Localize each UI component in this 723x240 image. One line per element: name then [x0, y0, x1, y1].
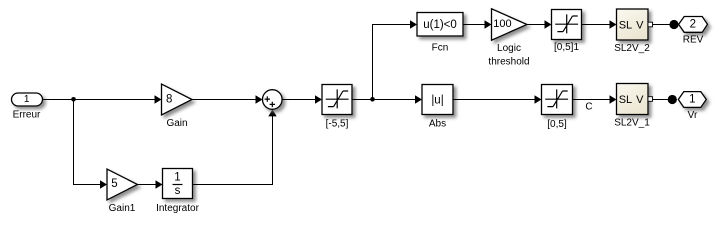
subsystem block SL2V_2: [617, 9, 649, 40]
svg-text:SL: SL: [619, 94, 632, 106]
wire Abs to Saturation2: [453, 99, 536, 101]
arrowhead into Logic threshold: [485, 20, 492, 28]
svg-text:2: 2: [690, 19, 696, 31]
fcn block u(1)<0: [417, 13, 463, 37]
svg-text:1: 1: [174, 171, 180, 183]
saturation block [0,5]1: [552, 10, 582, 40]
svg-text:SL: SL: [619, 19, 632, 31]
subsystem block SL2V_1: [617, 84, 649, 115]
wire Saturation to Abs: [352, 99, 416, 101]
wire Integrator up to Sum: [193, 116, 273, 185]
svg-text:u(1)<0: u(1)<0: [423, 19, 457, 31]
outport block 2 "REV": [679, 17, 708, 33]
wire Gain to Sum: [192, 99, 256, 101]
wire Fcn to Logic threshold: [463, 24, 485, 26]
svg-text:5: 5: [111, 178, 117, 190]
wire Logic threshold to Saturation1: [527, 24, 545, 26]
wire Gain1 to Integrator: [138, 184, 157, 186]
arrowhead into Saturation2: [535, 95, 542, 103]
svg-text:Gain: Gain: [166, 118, 187, 129]
svg-text:Logic: Logic: [497, 43, 521, 54]
svg-text:[0,5]: [0,5]: [547, 119, 567, 130]
arrowhead into Gain: [155, 95, 162, 103]
arrowhead into SL2V_2: [610, 20, 617, 28]
arrowhead into Saturation: [315, 95, 322, 103]
svg-text:SL2V_1: SL2V_1: [614, 118, 650, 129]
svg-text:s: s: [175, 185, 181, 197]
svg-text:Fcn: Fcn: [432, 43, 449, 54]
wire inport to Gain: [43, 99, 156, 101]
svg-text:Gain1: Gain1: [109, 203, 136, 214]
svg-text:Abs: Abs: [429, 118, 446, 129]
junction node at branch: [71, 97, 76, 102]
wire branch up to Fcn: [373, 25, 411, 100]
svg-text:|u|: |u|: [431, 95, 443, 107]
svg-text:REV: REV: [683, 34, 704, 45]
svg-text:1: 1: [24, 94, 30, 105]
wire Saturation1 to SL2V_2: [582, 24, 611, 26]
svg-text:1: 1: [689, 94, 695, 106]
svg-text:V: V: [636, 94, 644, 106]
arrowhead into Sum: [256, 95, 263, 103]
inport block 1 "Erreur": [12, 93, 43, 106]
gain block "100" (Logic threshold): [492, 9, 528, 40]
wire branch down to Gain1: [74, 100, 101, 185]
arrowhead into Fcn: [410, 20, 417, 28]
svg-text:SL2V_2: SL2V_2: [614, 43, 650, 54]
svg-text:[0,5]1: [0,5]1: [554, 42, 579, 53]
arrowhead into Integrator: [156, 180, 163, 188]
junction node on wire: [370, 97, 375, 102]
saturation block [-5,5]: [322, 85, 352, 115]
svg-text:100: 100: [493, 18, 511, 30]
svg-text:C: C: [585, 102, 592, 113]
integrator block 1/s: [163, 169, 193, 199]
svg-text:Vr: Vr: [688, 110, 698, 121]
arrowhead into Saturation1: [545, 20, 552, 28]
arrowhead into Gain1: [100, 180, 107, 188]
node dot before outport 2: [669, 20, 678, 29]
saturation block [0,5]: [542, 85, 573, 115]
arrowhead into SL2V_1: [610, 95, 617, 103]
pin marker SL2V_2 output port: [648, 22, 653, 27]
wire SL2V_1 to outport Vr: [653, 99, 669, 101]
arrowhead into Abs: [415, 95, 422, 103]
svg-text:Erreur: Erreur: [13, 110, 41, 121]
svg-text:Integrator: Integrator: [156, 203, 199, 214]
wire Saturation2 to SL2V_1: [573, 99, 611, 101]
outport block 1 "Vr": [678, 92, 706, 108]
svg-text:8: 8: [166, 93, 172, 105]
gain block "8" (Gain): [162, 84, 193, 115]
svg-text:V: V: [636, 19, 644, 31]
wire Sum to Saturation: [282, 99, 316, 101]
gain block "5" (Gain1): [107, 169, 138, 200]
svg-text:threshold: threshold: [488, 56, 529, 67]
node dot before outport 1: [668, 95, 677, 104]
arrowhead up into Sum: [268, 109, 276, 116]
abs block |u|: [422, 85, 453, 115]
wire SL2V_2 to outport REV: [653, 24, 671, 26]
svg-text:[-5,5]: [-5,5]: [326, 118, 349, 129]
pin marker SL2V_1 output port: [648, 97, 653, 102]
sum block: [263, 90, 283, 110]
